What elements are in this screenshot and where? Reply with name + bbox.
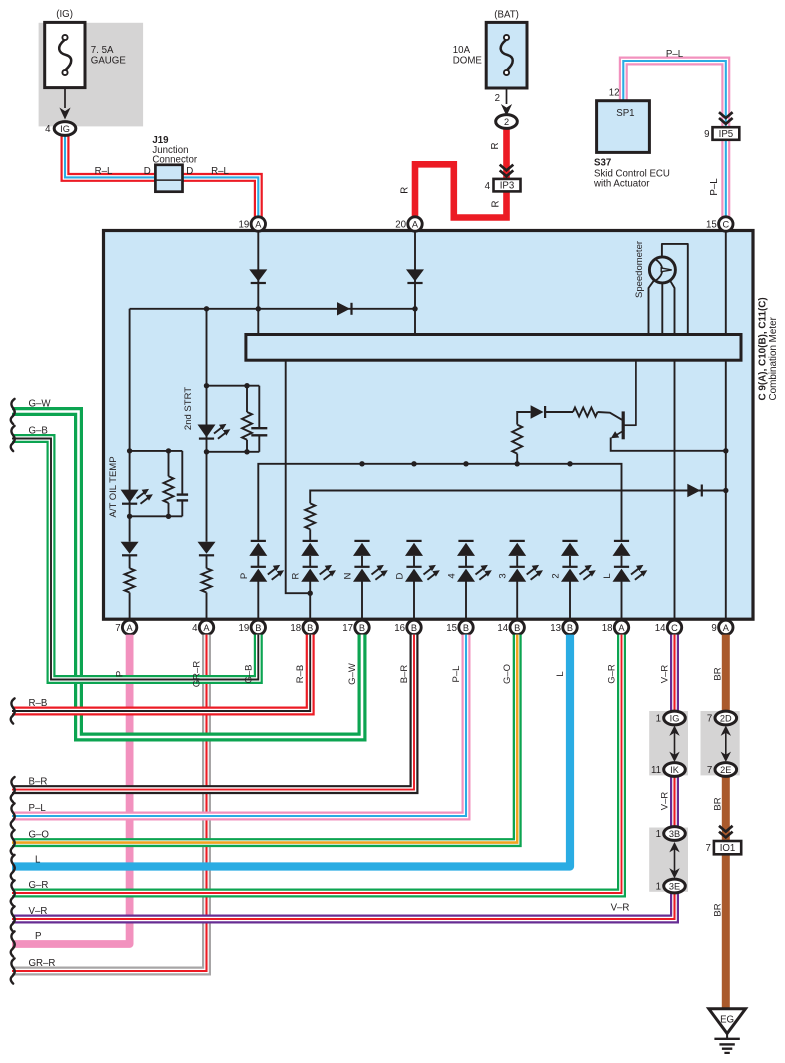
svg-text:D: D	[395, 572, 406, 579]
svg-text:R: R	[490, 143, 501, 150]
indicator diode column D	[406, 540, 421, 542]
diode to 9(A) line	[687, 484, 700, 497]
svg-text:G–R: G–R	[607, 664, 618, 684]
svg-text:4: 4	[447, 573, 458, 578]
svg-text:D: D	[186, 166, 193, 177]
svg-text:V–R: V–R	[29, 906, 48, 917]
connector oval 2	[496, 115, 518, 129]
wire pin 20(A) to internal bus	[414, 231, 416, 335]
svg-text:B: B	[307, 623, 313, 633]
indicator diode column N	[354, 540, 369, 542]
resistor (2nd STRT)	[242, 412, 252, 440]
svg-text:A: A	[723, 623, 730, 633]
svg-text:3B: 3B	[669, 829, 680, 839]
indicator LED R	[309, 556, 311, 567]
internal bus bar	[246, 335, 741, 361]
wire G-W from pin 17(B) (full path, under layer)	[12, 412, 362, 738]
ignition fuse block background panel	[39, 23, 144, 127]
wire bus drop to column R	[286, 360, 311, 593]
svg-text:2: 2	[504, 117, 509, 127]
svg-text:G–O: G–O	[502, 664, 513, 684]
transistor Q1	[598, 412, 623, 420]
svg-text:R–L: R–L	[211, 166, 229, 177]
pin 14(B) bottom	[510, 620, 524, 634]
connector block 3B/3E gray panel	[649, 828, 688, 892]
wire column R to diode D6	[310, 491, 726, 504]
svg-text:16: 16	[394, 623, 405, 634]
off-page connector brace (B–R)	[11, 777, 15, 802]
resistor column 7(A)	[129, 555, 131, 568]
svg-text:2D: 2D	[720, 713, 732, 723]
svg-text:2nd STRT: 2nd STRT	[183, 387, 194, 430]
svg-text:B–R: B–R	[29, 777, 48, 788]
wire R-L from connector IG through J19 to pin 19(A)	[65, 133, 258, 218]
svg-text:14: 14	[655, 623, 666, 634]
wire G-W horizontal overlay segment	[84, 635, 363, 737]
arrow from fuse DOME to connector 2	[506, 88, 508, 104]
svg-text:IP3: IP3	[500, 181, 515, 192]
svg-text:GR–R: GR–R	[192, 661, 203, 688]
svg-text:(BAT): (BAT)	[494, 10, 519, 21]
fuse 10A DOME	[486, 22, 527, 88]
svg-text:C: C	[722, 219, 729, 229]
ECU box S37 SP1	[597, 101, 650, 153]
connector oval 1 3B	[664, 827, 686, 841]
svg-text:B: B	[411, 623, 417, 633]
wire R from connector 2 to pin 20(A)	[415, 129, 507, 219]
svg-text:A: A	[618, 623, 625, 633]
pin 13(B) bottom	[563, 620, 577, 634]
wire B-R from pin 16(B)	[12, 635, 414, 790]
internal horizontal wire at y309	[130, 308, 415, 310]
svg-text:G–W: G–W	[29, 399, 52, 410]
svg-text:R–B: R–B	[295, 665, 306, 683]
indicator diode column P	[251, 540, 266, 542]
indicator diode column R	[303, 540, 318, 542]
LED A/T OIL TEMP	[121, 490, 139, 503]
connector oval 7 2E	[715, 763, 737, 777]
svg-text:7: 7	[706, 843, 711, 854]
svg-text:A: A	[203, 623, 210, 633]
capacitor (A/T)	[181, 451, 183, 494]
svg-text:2: 2	[495, 93, 500, 104]
speedometer connection wires	[649, 281, 654, 335]
indicator LED L	[621, 556, 623, 567]
svg-text:7: 7	[707, 714, 712, 725]
pin 20(A) top	[408, 217, 422, 231]
wire P-L from S37 pin 12 to pin 15(C)	[623, 61, 726, 218]
svg-text:B–R: B–R	[399, 665, 410, 684]
svg-text:V–R: V–R	[660, 792, 671, 811]
svg-text:Speedometer: Speedometer	[634, 241, 645, 298]
svg-text:IG: IG	[670, 713, 680, 723]
svg-text:A: A	[127, 623, 134, 633]
svg-text:L: L	[35, 855, 41, 866]
svg-text:B: B	[514, 623, 520, 633]
svg-text:12: 12	[609, 88, 620, 99]
wire 14(C) column vertical (bus to pin)	[674, 360, 676, 620]
connector oval 1 IG	[664, 711, 686, 725]
diode column 7(A)	[129, 516, 131, 541]
pin 18(A) bottom	[614, 620, 628, 634]
svg-text:GAUGE: GAUGE	[91, 56, 127, 67]
svg-text:R: R	[399, 187, 410, 194]
wire L from pin 13(B)	[12, 635, 570, 867]
diode at pin 19(A)	[249, 269, 267, 281]
off-page connector brace (G–R)	[11, 880, 15, 905]
diode to transistor base	[531, 405, 544, 418]
svg-text:G–B: G–B	[29, 426, 48, 437]
connector box 7 IO1	[714, 841, 741, 854]
svg-text:19: 19	[239, 623, 250, 634]
svg-text:P: P	[239, 573, 250, 579]
indicator LED 3	[516, 556, 518, 567]
connector oval 7 2D	[715, 711, 737, 725]
indicator LED 2	[569, 556, 571, 567]
svg-text:18: 18	[290, 623, 301, 634]
junction connector J19 box	[155, 165, 182, 192]
arrow from fuse IG to connector	[64, 88, 66, 108]
ground EG	[709, 1009, 746, 1034]
LED anode bus wire	[258, 464, 621, 541]
wire P-L from pin 15(B)	[12, 635, 466, 816]
pin 19(A) top	[251, 217, 265, 231]
svg-text:IP5: IP5	[719, 129, 734, 140]
svg-text:G–O: G–O	[29, 830, 50, 841]
pin 19(B) bottom	[251, 620, 265, 634]
svg-text:DOME: DOME	[453, 56, 483, 67]
off-page connector brace (G–W)	[11, 399, 15, 424]
pin 9(A) bottom	[719, 620, 733, 634]
connector oval 1 3E	[664, 879, 686, 893]
wire BR from pin 9(A)	[722, 635, 730, 1008]
wire R-B from pin 18(B)	[12, 635, 310, 711]
svg-text:A: A	[255, 219, 262, 229]
svg-text:9: 9	[711, 623, 716, 634]
pin 15(B) bottom	[459, 620, 473, 634]
svg-text:P: P	[115, 671, 126, 677]
svg-text:B: B	[463, 623, 469, 633]
off-page connector brace (P)	[11, 931, 15, 956]
wire G-B from pin 19(B)	[12, 439, 258, 680]
svg-text:P–L: P–L	[29, 803, 47, 814]
off-page connector brace (V–R)	[11, 906, 15, 931]
fuse 7.5A GAUGE	[45, 22, 85, 87]
svg-text:R–L: R–L	[95, 166, 113, 177]
svg-text:(IG): (IG)	[56, 9, 73, 20]
diode on horizontal wire y309	[337, 302, 350, 315]
svg-text:EG: EG	[720, 1015, 734, 1026]
svg-text:19: 19	[239, 220, 250, 231]
svg-text:B: B	[359, 623, 365, 633]
svg-text:2E: 2E	[720, 765, 731, 775]
svg-text:17: 17	[342, 623, 353, 634]
off-page connector brace (GR–R)	[11, 958, 15, 983]
resistor column 4(A)	[206, 555, 208, 568]
double chevron into IO1	[719, 826, 733, 838]
emitter wire to 15(C) line	[611, 438, 726, 451]
svg-text:3: 3	[498, 573, 509, 578]
pin 17(B) bottom	[355, 620, 369, 634]
diode at pin 20(A)	[406, 269, 424, 281]
wire left column down from y309	[129, 309, 131, 451]
svg-text:IK: IK	[670, 765, 680, 775]
pin 4(A) bottom	[199, 620, 213, 634]
wire G-R from pin 18(A)	[12, 635, 622, 893]
svg-text:7: 7	[115, 623, 120, 634]
wire V-R from pin 14(C)	[12, 635, 675, 919]
svg-text:BR: BR	[712, 903, 723, 916]
svg-text:20: 20	[395, 220, 406, 231]
svg-text:P–L: P–L	[709, 178, 720, 196]
wire pin 19(A) to internal bus	[257, 231, 259, 335]
connector block IG/IK gray panel	[649, 711, 688, 775]
svg-text:Combination Meter: Combination Meter	[768, 316, 779, 400]
svg-text:3E: 3E	[669, 881, 680, 891]
svg-text:B: B	[567, 623, 573, 633]
svg-text:Skid Control ECU: Skid Control ECU	[594, 168, 670, 179]
svg-text:9: 9	[704, 129, 709, 140]
indicator LED D	[413, 556, 415, 567]
svg-text:1: 1	[656, 829, 661, 840]
resistor column R	[305, 503, 315, 529]
indicator diode column L	[614, 540, 629, 542]
svg-text:GR–R: GR–R	[29, 958, 56, 969]
svg-text:A: A	[412, 219, 419, 229]
svg-text:14: 14	[497, 623, 508, 634]
svg-text:B: B	[255, 623, 261, 633]
pin 14(C) bottom	[667, 620, 681, 634]
off-page connector brace (L)	[11, 855, 15, 880]
wire G-O from pin 14(B)	[12, 635, 517, 843]
svg-text:D: D	[144, 166, 151, 177]
connector box 9 IP5	[713, 127, 740, 140]
connector box 4 IP3	[494, 179, 521, 192]
svg-text:P–L: P–L	[666, 49, 684, 60]
svg-text:11: 11	[651, 765, 661, 776]
svg-text:R: R	[291, 572, 302, 579]
pin 15(C) top	[719, 217, 733, 231]
svg-text:S37: S37	[594, 158, 611, 169]
svg-text:V–R: V–R	[660, 665, 671, 684]
connector block 2D/2E gray panel	[701, 711, 740, 775]
indicator diode column 4	[458, 540, 473, 542]
off-page connector brace (G–B)	[11, 426, 15, 451]
wire 15(C) to 9(A) internal vertical	[725, 231, 727, 620]
LED 2nd STRT	[198, 425, 216, 438]
svg-text:BR: BR	[712, 667, 723, 680]
off-page connector brace (R–B)	[11, 698, 15, 723]
svg-text:C: C	[671, 623, 678, 633]
transfer arrows 2D-2E	[725, 732, 727, 757]
svg-text:4: 4	[45, 124, 51, 135]
svg-text:L: L	[602, 573, 613, 578]
svg-text:13: 13	[550, 623, 561, 634]
diode column 4(A)	[206, 452, 208, 542]
pin 16(B) bottom	[407, 620, 421, 634]
svg-text:2: 2	[551, 573, 562, 578]
svg-text:G–W: G–W	[347, 663, 358, 685]
double chevron into IP5	[719, 112, 733, 124]
svg-text:15: 15	[706, 220, 717, 231]
svg-text:7: 7	[707, 765, 712, 776]
combination meter box C9(A) C10(B) C11(C)	[104, 231, 754, 620]
svg-text:with Actuator: with Actuator	[593, 179, 650, 190]
off-page connector brace (P–L)	[11, 803, 15, 828]
capacitor (2nd STRT)	[258, 386, 260, 428]
svg-text:18: 18	[602, 623, 613, 634]
off-page connector brace (G–O)	[11, 830, 15, 855]
svg-text:IG: IG	[60, 124, 70, 134]
indicator diode column 3	[510, 540, 525, 542]
svg-text:R–B: R–B	[29, 698, 48, 709]
svg-text:1: 1	[656, 714, 661, 725]
connector oval 4 IG	[54, 122, 76, 136]
svg-text:1: 1	[656, 882, 661, 893]
svg-text:IO1: IO1	[720, 843, 736, 854]
svg-text:A/T OIL TEMP: A/T OIL TEMP	[108, 456, 119, 517]
A/T OIL TEMP LED assembly	[129, 451, 131, 516]
pin 18(B) bottom	[303, 620, 317, 634]
double chevron into IP3	[500, 165, 514, 177]
svg-text:4: 4	[485, 181, 491, 192]
svg-text:Connector: Connector	[152, 155, 197, 166]
pin 7(A) bottom	[122, 620, 136, 634]
svg-text:R: R	[491, 201, 502, 208]
svg-text:BR: BR	[712, 797, 723, 810]
wire P from pin 7(A)	[12, 635, 130, 944]
indicator LED 4	[465, 556, 467, 567]
svg-text:G–R: G–R	[29, 880, 49, 891]
svg-text:15: 15	[446, 623, 457, 634]
svg-text:N: N	[343, 572, 354, 579]
resistor at transistor base	[573, 408, 598, 417]
transfer arrows 3B-3E	[674, 848, 676, 873]
svg-text:SP1: SP1	[616, 108, 634, 119]
transfer arrows IG-IK	[674, 732, 676, 757]
wire GR-R from pin 4(A)	[12, 635, 207, 971]
svg-text:L: L	[555, 671, 566, 676]
connector oval 11 IK	[664, 763, 686, 777]
svg-text:7. 5A: 7. 5A	[91, 45, 114, 56]
indicator LED P	[257, 556, 259, 567]
speedometer	[649, 257, 675, 283]
resistor above column 3	[512, 425, 522, 454]
svg-text:10A: 10A	[453, 45, 471, 56]
svg-text:G–B: G–B	[243, 664, 254, 683]
svg-text:V–R: V–R	[611, 903, 630, 914]
svg-text:P: P	[35, 931, 41, 942]
resistor (A/T)	[164, 476, 174, 503]
2nd STRT LED assembly	[206, 386, 208, 452]
indicator LED N	[361, 556, 363, 567]
svg-text:4: 4	[192, 623, 198, 634]
svg-text:P–L: P–L	[451, 666, 462, 683]
wire column 4(A) down from y309	[206, 309, 208, 386]
indicator diode column 2	[562, 540, 577, 542]
